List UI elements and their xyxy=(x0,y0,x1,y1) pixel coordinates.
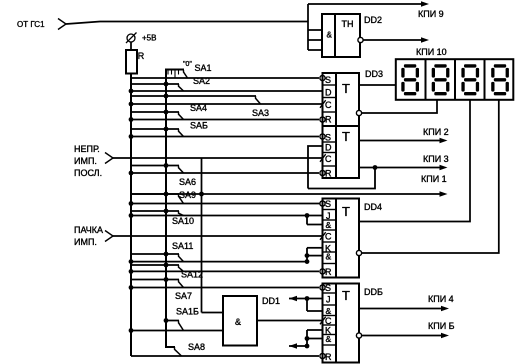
svg-text:ИМП.: ИМП. xyxy=(74,237,97,247)
display digit 2 xyxy=(432,64,450,95)
svg-text:КПИ 4: КПИ 4 xyxy=(428,294,454,304)
wire SA1 to DD3 S1 xyxy=(131,77,319,79)
pin DD4 S inverted input xyxy=(320,201,325,206)
node КПИ 2 label xyxy=(423,127,449,137)
wire SA8 to DD5 R xyxy=(131,355,319,357)
node КПИ 10 label xyxy=(416,47,447,57)
node КПИ 9 label xyxy=(418,9,444,19)
svg-text:DD4: DD4 xyxy=(364,202,382,212)
node +5В label xyxy=(142,34,156,43)
svg-text:&: & xyxy=(326,252,332,262)
svg-text:SA6: SA6 xyxy=(179,177,196,187)
power +5В terminal xyxy=(126,33,137,44)
arrow DD5 K bundle xyxy=(289,343,297,349)
pin DD3 Q1 inverted output xyxy=(356,110,361,115)
wire DD2 pin 2 xyxy=(308,39,322,41)
node DD5 label xyxy=(364,287,383,297)
wire SA9 to DD4 S xyxy=(129,201,320,206)
node junction КПИ1/DD1 xyxy=(199,192,204,197)
wire feedback Q2 loop xyxy=(308,168,375,189)
node R label xyxy=(138,51,145,61)
wire КПИ 10 xyxy=(363,39,424,41)
arrow КПИ 9 xyxy=(421,1,429,7)
svg-text:J: J xyxy=(326,295,331,305)
svg-text:КПИ 3: КПИ 3 xyxy=(423,154,449,164)
svg-text:SA1Б: SA1Б xyxy=(176,307,199,317)
logic block DD2 (ТН trigger) xyxy=(322,14,360,57)
svg-text:ИМП.: ИМП. xyxy=(74,156,97,166)
arrow КПИ 2 xyxy=(440,138,448,144)
svg-text:T: T xyxy=(342,204,350,219)
svg-text:C: C xyxy=(325,154,332,164)
svg-text:S: S xyxy=(325,199,331,209)
wire SA7 to DD5 S xyxy=(129,285,319,290)
wire SA3 to DD3 C1 xyxy=(129,102,323,107)
node КПИ 3 label xyxy=(423,154,449,164)
node "0" label xyxy=(183,61,192,68)
wire DD4 Q to display digit 3 xyxy=(359,100,470,222)
svg-text:SA2: SA2 xyxy=(193,76,210,86)
svg-text:КПИ Б: КПИ Б xyxy=(428,321,455,331)
wire DD4 Qb to display digit 4 xyxy=(362,100,499,253)
wire ПАЧКА to DD4 C xyxy=(113,235,322,237)
svg-text:C: C xyxy=(325,100,332,110)
display digit 4 xyxy=(491,64,509,95)
pin DD4 Qb inverted output xyxy=(356,250,361,255)
svg-text:КПИ 9: КПИ 9 xyxy=(418,9,444,19)
wire DD3 D2 feedback xyxy=(308,146,323,189)
svg-text:&: & xyxy=(235,317,241,327)
wire SA11 to DD4 K bundle xyxy=(129,259,307,264)
pin DD3 R1 inverted input xyxy=(320,117,325,122)
pin DD5 R inverted input xyxy=(320,353,325,358)
svg-text:S: S xyxy=(325,133,331,143)
switch SA10 xyxy=(131,209,194,226)
node КПИ 4 label xyxy=(428,294,454,304)
svg-text:DD3: DD3 xyxy=(365,69,383,79)
wire DD2 input bus vertical xyxy=(307,4,309,50)
wire ОТ ГС1 to DD2 xyxy=(66,22,308,25)
wire DD5 Q to КПИ 4 xyxy=(359,308,445,310)
svg-text:T: T xyxy=(342,81,350,96)
wire НЕПР to DD3 C2 xyxy=(113,157,322,159)
pin DD5 Qb inverted output xyxy=(356,333,361,338)
svg-text:T: T xyxy=(342,288,350,303)
switch SA12 xyxy=(131,263,203,280)
svg-text:&: & xyxy=(327,31,333,40)
svg-text:SA1: SA1 xyxy=(195,63,212,73)
node ПАЧКА ИМП label xyxy=(74,225,103,247)
wire DD3 Q2b to КПИ 3 xyxy=(359,167,443,169)
svg-text:S: S xyxy=(325,75,331,85)
flip-flop block DD5 xyxy=(323,283,360,363)
wire DD5 Qb to КПИ 5 xyxy=(362,335,446,337)
svg-text:C: C xyxy=(325,316,332,326)
svg-text:DDБ: DDБ xyxy=(364,287,383,297)
svg-text:КПИ 2: КПИ 2 xyxy=(423,127,449,137)
wire SA4 to DD3 R1 xyxy=(129,117,319,122)
pin DD3 S1 inverted input xyxy=(320,75,325,80)
display digit 1 xyxy=(401,64,419,95)
svg-text:R: R xyxy=(138,51,145,61)
wire КПИ 9 xyxy=(308,3,424,5)
wire DD3 Q1 to display xyxy=(359,84,396,86)
svg-text:R: R xyxy=(325,169,332,179)
svg-text:D: D xyxy=(325,88,332,98)
svg-text:&: & xyxy=(326,306,332,316)
node DD2 label xyxy=(364,15,382,25)
wire DD3 Q2 to КПИ 2 xyxy=(359,140,443,142)
svg-text:R: R xyxy=(325,115,332,125)
svg-text:"0": "0" xyxy=(183,61,192,68)
switch SA15 xyxy=(164,307,199,331)
wire bus1 from resistor xyxy=(130,74,132,357)
svg-text:R: R xyxy=(325,267,332,277)
svg-text:НЕПР.: НЕПР. xyxy=(74,144,100,154)
wire КПИ 1 row xyxy=(131,193,443,195)
node DD4 label xyxy=(364,202,382,212)
svg-text:DD2: DD2 xyxy=(364,15,382,25)
svg-text:+5В: +5В xyxy=(142,34,156,43)
pin DD3 C2 dynamic input xyxy=(320,154,326,162)
svg-text:КПИ 10: КПИ 10 xyxy=(416,47,447,57)
node ОТ ГС1 input label xyxy=(17,20,45,29)
arrow КПИ 5 xyxy=(441,333,449,339)
wire DD5 J bundle xyxy=(289,296,322,311)
connector chevron ПАЧКА xyxy=(105,231,113,242)
connector chevron НЕПР xyxy=(105,153,113,164)
wire SA12 to DD4 R xyxy=(129,269,319,274)
svg-text:SA4: SA4 xyxy=(190,103,207,113)
svg-text:C: C xyxy=(325,232,332,242)
logic gate DD1 (&) xyxy=(223,296,257,346)
svg-text:SA11: SA11 xyxy=(172,241,193,251)
svg-text:SAБ: SAБ xyxy=(190,121,208,131)
wire SA6 to DD3 R2 xyxy=(129,171,319,176)
svg-text:SA8: SA8 xyxy=(188,342,205,352)
switch SA7 xyxy=(131,277,192,301)
wire DD2 pin 3 xyxy=(308,49,322,51)
switch SA1 xyxy=(165,63,212,78)
wire bus2 vertical xyxy=(165,70,175,348)
wire SA5 to DD3 S2 xyxy=(129,134,319,139)
switch SA6 xyxy=(131,163,196,187)
wire DD1 output to DD5 C xyxy=(257,320,322,322)
svg-text:&: & xyxy=(326,220,332,230)
node КПИ 5 label xyxy=(428,321,455,331)
svg-text:ТН: ТН xyxy=(342,19,354,29)
pin DD2 inverted output xyxy=(358,37,363,42)
switch SA11 xyxy=(131,241,193,262)
resistor R xyxy=(126,50,137,74)
wire DD4 J to & bracket xyxy=(307,216,322,225)
svg-text:ПАЧКА: ПАЧКА xyxy=(74,225,103,235)
svg-text:DD1: DD1 xyxy=(262,296,280,306)
switch SA4 xyxy=(131,103,207,120)
svg-text:SA3: SA3 xyxy=(252,108,269,118)
switch SA9 xyxy=(131,190,196,204)
svg-text:T: T xyxy=(342,129,350,144)
node junction DD4 J bundle xyxy=(305,213,310,218)
switch SA8 xyxy=(175,342,206,356)
wire DD3 Q1b to display digit 2 xyxy=(362,100,438,113)
svg-text:D: D xyxy=(325,143,332,153)
svg-text:S: S xyxy=(325,283,331,293)
flip-flop block DD4 xyxy=(323,199,360,278)
wire SA15 to DD1 input 2 xyxy=(129,328,223,333)
wire SA10 to DD4 J xyxy=(129,213,322,218)
display digit 3 xyxy=(461,64,479,95)
display indicator HG1 (4-digit) xyxy=(396,59,514,100)
flip-flop block DD3 xyxy=(323,73,360,179)
node DD3 label xyxy=(365,69,383,79)
svg-text:&: & xyxy=(326,334,332,344)
svg-text:SA10: SA10 xyxy=(172,216,194,226)
arrow КПИ 4 xyxy=(441,306,449,312)
pin DD4 R inverted input xyxy=(320,269,325,274)
wire DD2 pin 1 xyxy=(308,29,322,31)
switch SA5 xyxy=(131,121,208,137)
arrow КПИ 3 xyxy=(440,165,448,171)
svg-text:SA9: SA9 xyxy=(179,190,196,200)
wire vertical to DD1 input 1 xyxy=(202,158,224,313)
arrow КПИ 1 xyxy=(440,191,448,197)
node junction feedback xyxy=(373,165,378,170)
node КПИ 1 label xyxy=(421,174,447,184)
switch SA2 xyxy=(131,76,210,91)
wire DD5 K bundle xyxy=(289,330,322,348)
pin DD5 C dynamic input xyxy=(320,317,326,325)
wire DD4 K bracket xyxy=(305,248,322,262)
pin DD3 R2 inverted input xyxy=(320,170,325,175)
node DD1 label xyxy=(262,296,280,306)
svg-text:SA7: SA7 xyxy=(175,291,192,301)
svg-text:КПИ 1: КПИ 1 xyxy=(421,174,447,184)
pin DD5 S inverted input xyxy=(320,285,325,290)
arrow DD5 J bundle xyxy=(289,296,297,302)
svg-text:ПОСЛ.: ПОСЛ. xyxy=(74,168,102,178)
node НЕПР ИМП ПОСЛ label xyxy=(74,144,102,178)
pin DD3 C1 dynamic input xyxy=(320,100,326,108)
svg-text:ОТ ГС1: ОТ ГС1 xyxy=(17,20,45,29)
node junction DD4 K bundle xyxy=(305,259,310,264)
arrow КПИ 10 xyxy=(421,37,429,43)
connector chevron ОТ ГС1 xyxy=(58,19,66,30)
svg-text:R: R xyxy=(325,352,332,362)
wire SA2 to DD3 D1 xyxy=(129,89,323,94)
pin DD3 S2 inverted input xyxy=(320,134,325,139)
wire +5В to resistor xyxy=(130,42,132,50)
switch SA3 xyxy=(131,94,269,118)
pin DD4 C dynamic input xyxy=(320,232,326,240)
